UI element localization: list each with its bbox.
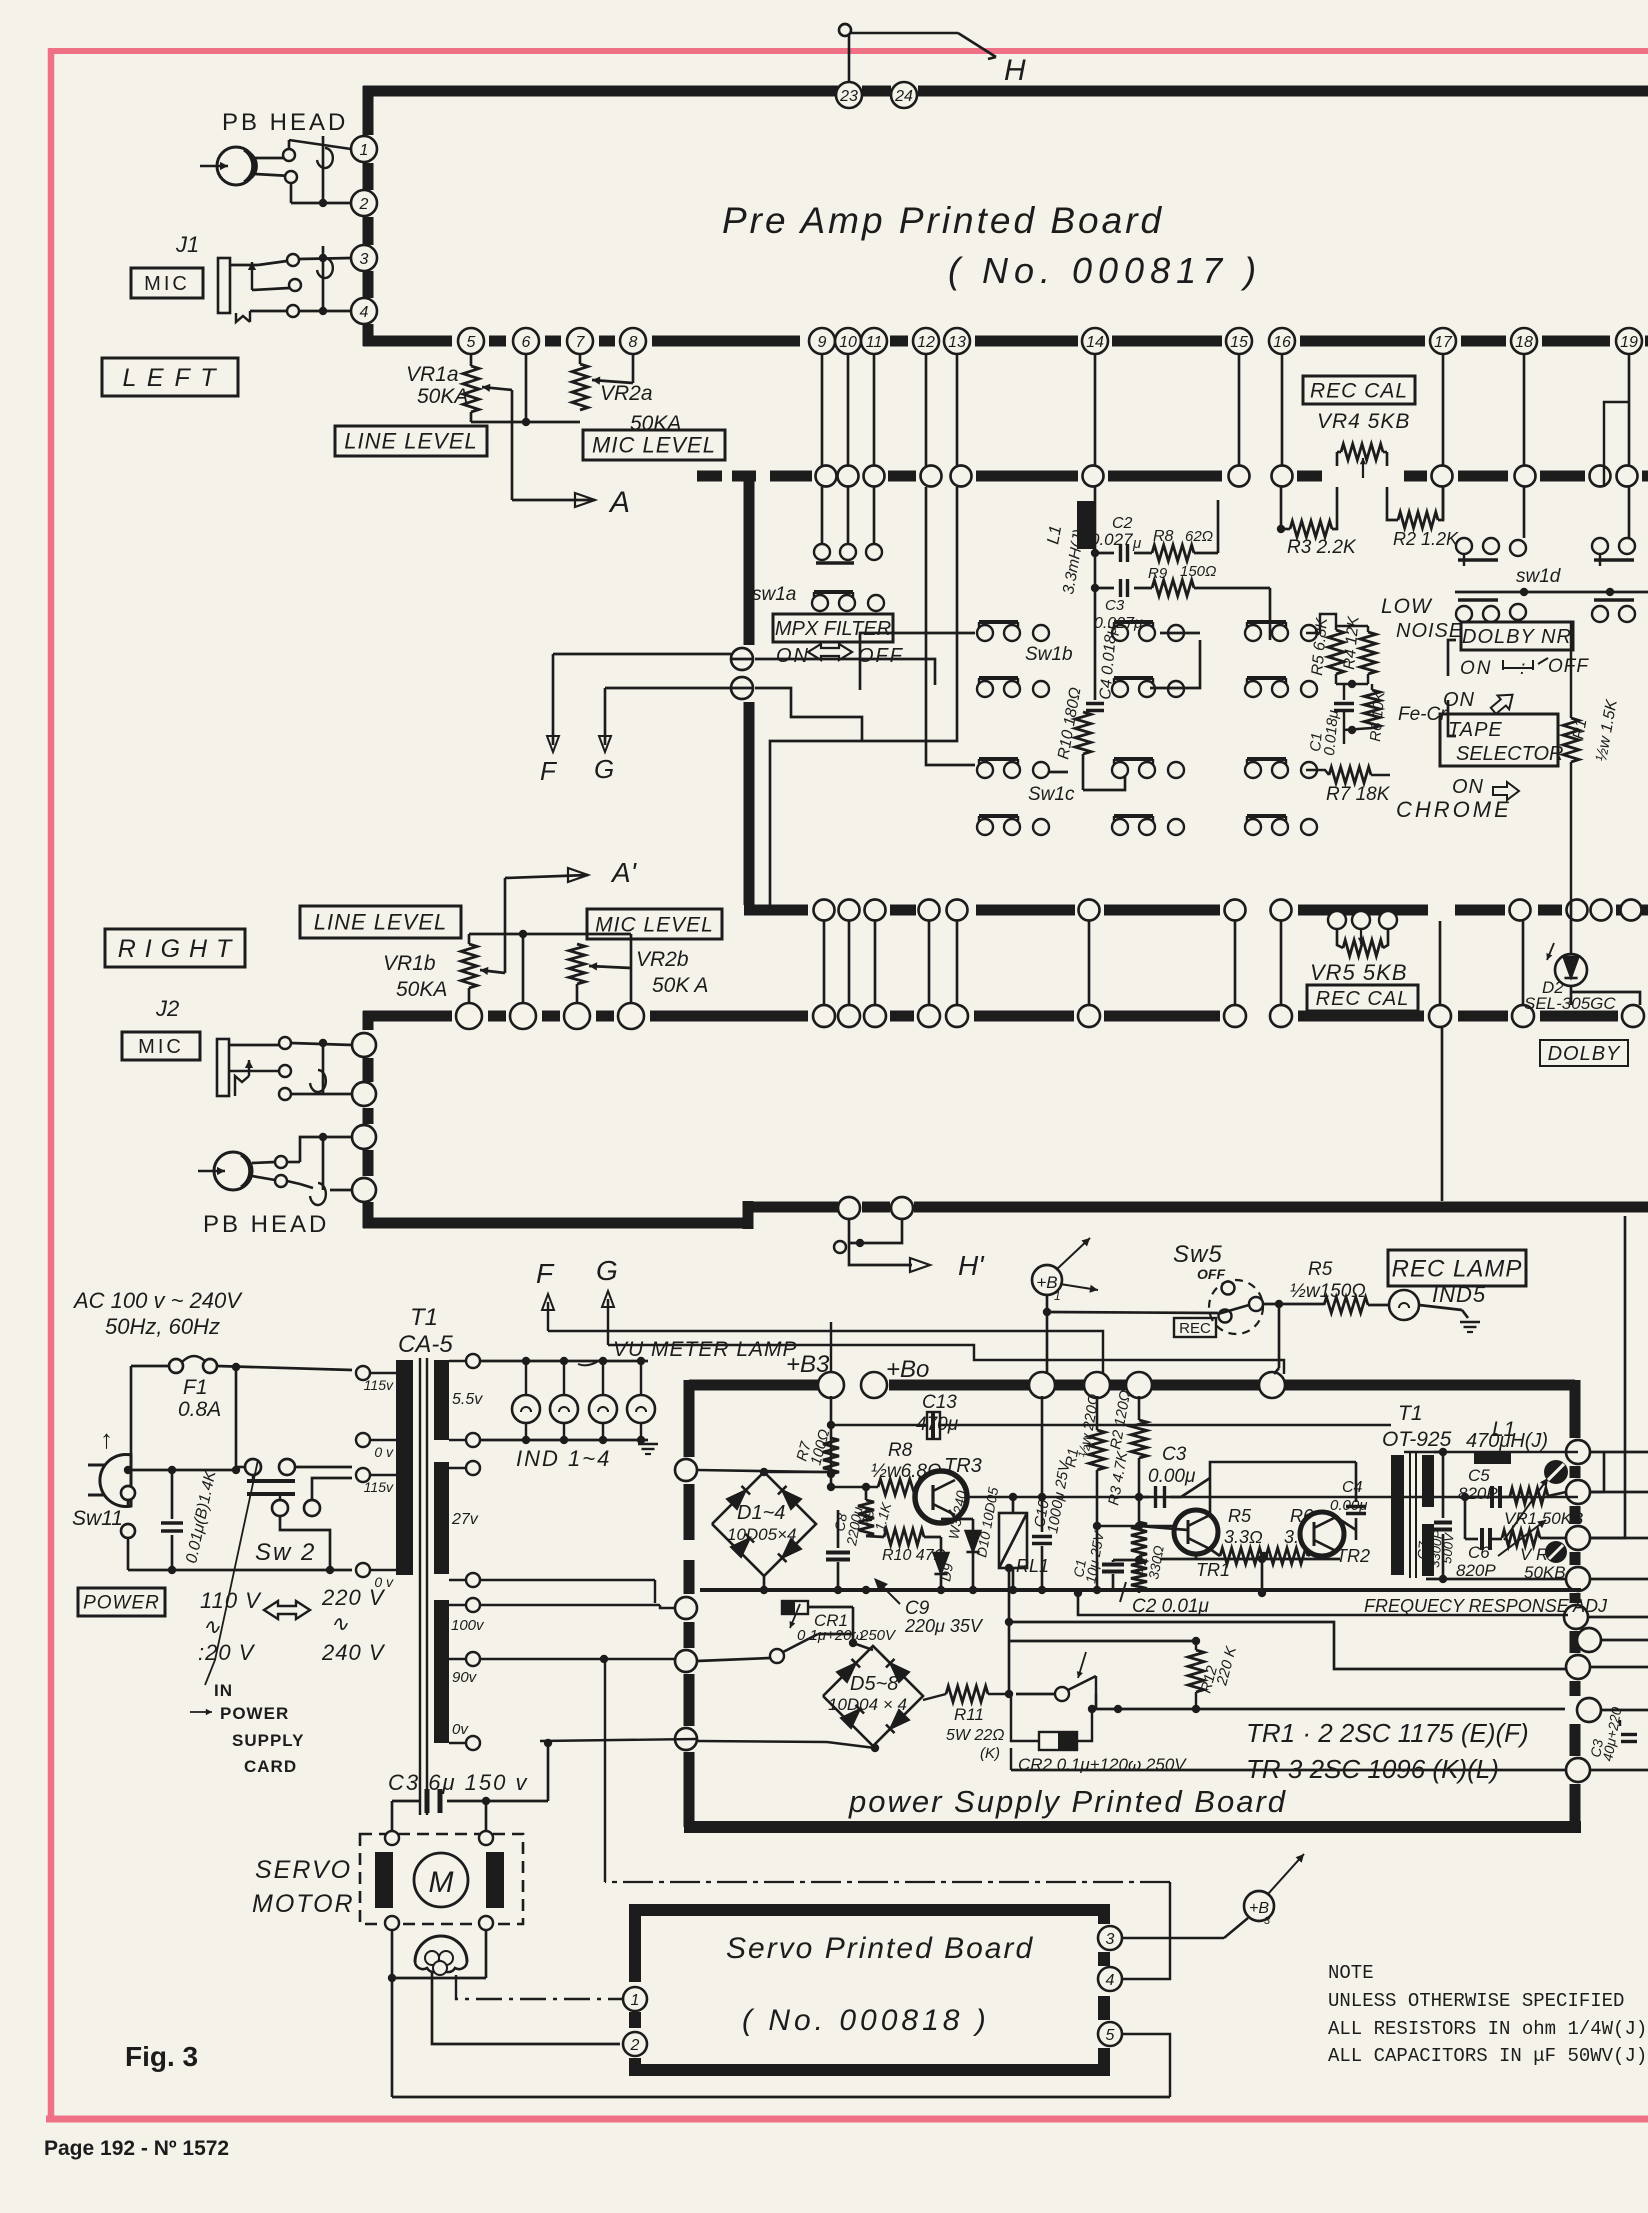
svg-text:NOTE: NOTE <box>1328 1962 1374 1984</box>
wire R12 top <box>1009 1640 1196 1643</box>
LEFT label <box>102 358 238 396</box>
MPX FILTER label <box>773 614 893 642</box>
svg-text:11: 11 <box>866 334 883 351</box>
terminal <box>1510 900 1531 921</box>
node 15 <box>1226 328 1252 354</box>
wire switch board left edge <box>744 471 755 645</box>
+B3 servo node <box>1244 1891 1274 1921</box>
svg-text:115v: 115v <box>364 1479 394 1495</box>
potentiometer VR5 5KB <box>1328 911 1346 929</box>
terminal <box>947 900 968 921</box>
svg-text:OFF: OFF <box>1197 1266 1225 1282</box>
terminal <box>951 466 972 487</box>
resistor R2 1.2k <box>1387 487 1398 520</box>
servo terminals 3 4 5 <box>1098 1926 1122 1950</box>
svg-text:10D04 × 4: 10D04 × 4 <box>828 1695 907 1714</box>
svg-text:T1: T1 <box>410 1304 438 1331</box>
svg-text:( No. 000817 ): ( No. 000817 ) <box>948 250 1262 291</box>
MIC LEVEL label right <box>587 909 722 939</box>
switch contact <box>977 625 993 641</box>
wire node10 down <box>847 355 850 466</box>
svg-text:C4: C4 <box>1342 1479 1363 1496</box>
svg-text:62Ω: 62Ω <box>1185 528 1213 545</box>
svg-text:VR1a: VR1a <box>406 363 459 386</box>
svg-text:18: 18 <box>1515 334 1533 351</box>
svg-text:TR2: TR2 <box>1336 1546 1370 1566</box>
wire node17 down <box>1442 355 1445 466</box>
terminal <box>1083 466 1104 487</box>
terminal <box>813 1005 835 1027</box>
node 2 <box>351 190 377 216</box>
svg-text:15: 15 <box>1230 334 1248 351</box>
svg-text:J1: J1 <box>175 232 199 257</box>
svg-text:90v: 90v <box>452 1669 478 1686</box>
svg-text:MPX FILTER: MPX FILTER <box>775 618 891 640</box>
transistor TR1 <box>1174 1510 1218 1554</box>
wire power board top edge <box>689 1380 820 1391</box>
wire R11 up and right <box>1008 1568 1011 1693</box>
svg-text:VR2a: VR2a <box>600 382 653 405</box>
switch CR1 arm <box>697 1658 770 1661</box>
pot VR1 50KB <box>1510 1488 1548 1504</box>
AC plug <box>100 1454 131 1506</box>
wire tr3 collector <box>967 1496 1578 1499</box>
svg-text:50Hz, 60Hz: 50Hz, 60Hz <box>105 1314 220 1339</box>
wire junction <box>522 934 525 1003</box>
motor terminals <box>385 1831 399 1845</box>
svg-text:power Supply Printed Board: power Supply Printed Board <box>848 1784 1287 1819</box>
svg-text:REC LAMP: REC LAMP <box>1392 1255 1523 1282</box>
REC CAL label right <box>1307 985 1418 1011</box>
wire pb head contacts <box>255 157 289 160</box>
servo motor box <box>360 1834 523 1924</box>
svg-text:FREQUECY RESPONSE ADJ: FREQUECY RESPONSE ADJ <box>1364 1596 1608 1616</box>
svg-text:PB HEAD: PB HEAD <box>222 109 348 136</box>
wire node13 route <box>770 487 957 905</box>
PB head right <box>214 1152 252 1190</box>
terminal <box>864 466 885 487</box>
wire ladder <box>874 921 877 1005</box>
wire 0v rail <box>128 1569 352 1572</box>
svg-text:Servo Printed Board: Servo Printed Board <box>726 1932 1034 1965</box>
svg-text:DOLBY: DOLBY <box>1548 1043 1621 1065</box>
wire node6 down <box>525 355 528 422</box>
servo terminals 1 2 <box>623 1987 647 2011</box>
terminal <box>564 1003 590 1029</box>
wire sw2 connections <box>235 1367 238 1467</box>
terminal <box>456 1003 482 1029</box>
node 8 <box>620 328 646 354</box>
node 3 <box>351 245 377 271</box>
terminal <box>1617 466 1638 487</box>
wire TR1 collector top <box>1210 1462 1356 1515</box>
svg-text:ON: ON <box>1452 776 1484 798</box>
svg-text:OFF: OFF <box>1548 656 1589 677</box>
svg-text:TR 3 2SC 1096 (K)(L): TR 3 2SC 1096 (K)(L) <box>1246 1754 1499 1784</box>
LINE LEVEL label right <box>300 906 461 938</box>
wire node7 down <box>579 355 582 364</box>
terminal <box>1229 466 1250 487</box>
svg-text:D5~8: D5~8 <box>850 1673 898 1695</box>
svg-text:5: 5 <box>1106 2027 1115 2044</box>
svg-text:C3 6μ 150 v: C3 6μ 150 v <box>388 1770 528 1795</box>
servo board outline <box>629 1904 1110 1916</box>
svg-text:150Ω: 150Ω <box>1180 563 1216 580</box>
wire pre-amp board top edge <box>363 86 838 97</box>
wire bottom rail osc <box>1426 1578 1566 1581</box>
svg-text:115v: 115v <box>364 1377 394 1393</box>
svg-text:SERVO: SERVO <box>255 1856 352 1884</box>
wire c3 sides down <box>391 1801 394 1838</box>
svg-text:OFF: OFF <box>858 645 904 667</box>
TAPE SELECTOR label <box>1440 714 1558 766</box>
svg-text:ON: ON <box>1460 658 1493 679</box>
wire pre-amp board left edge <box>363 96 374 135</box>
terminal <box>1224 1005 1246 1027</box>
svg-text:Sw5: Sw5 <box>1173 1241 1223 1268</box>
svg-text:OT-925: OT-925 <box>1382 1428 1452 1451</box>
VR2 knob <box>1545 1541 1567 1563</box>
wire governor to terminals <box>456 1975 629 1999</box>
switch contact <box>1245 762 1261 778</box>
svg-text:5: 5 <box>467 334 476 351</box>
svg-text:PB HEAD: PB HEAD <box>203 1211 329 1238</box>
capacitor C9 annotation <box>876 1580 900 1604</box>
wire node12 route <box>926 487 975 765</box>
wire power board bottom edge <box>684 1821 1581 1833</box>
terminals power board top <box>818 1372 844 1398</box>
svg-text:12: 12 <box>917 334 935 351</box>
wire G to power board <box>608 1345 1284 1374</box>
resistor R7 18k <box>1306 770 1329 775</box>
bridge D1-4 <box>712 1472 816 1576</box>
switch contact <box>1245 681 1261 697</box>
svg-text:+B3: +B3 <box>786 1351 830 1378</box>
svg-text:10D05×4: 10D05×4 <box>727 1525 796 1544</box>
terminal <box>946 1005 968 1027</box>
inductor L1 3.3mH <box>1077 501 1094 549</box>
terminal <box>838 1005 860 1027</box>
wire A' arrow <box>504 878 507 973</box>
svg-text:0.8A: 0.8A <box>178 1398 221 1421</box>
svg-text:REC CAL: REC CAL <box>1316 988 1410 1010</box>
wire node5 to VR1a <box>470 355 473 366</box>
svg-text:MIC LEVEL: MIC LEVEL <box>592 433 716 458</box>
terminal <box>1591 900 1612 921</box>
svg-text:C3: C3 <box>1162 1444 1187 1465</box>
svg-text:C6: C6 <box>1468 1543 1490 1562</box>
svg-text:ON: ON <box>776 645 810 667</box>
terminal PBr1 <box>352 1125 376 1149</box>
svg-text:sw1a: sw1a <box>752 584 796 605</box>
svg-text:R11: R11 <box>954 1705 984 1724</box>
svg-text:27v: 27v <box>451 1511 479 1528</box>
svg-text:VR4 5KB: VR4 5KB <box>1317 410 1410 433</box>
transistor TR2 <box>1300 1512 1344 1556</box>
terminal <box>816 466 837 487</box>
svg-text:3: 3 <box>360 251 369 268</box>
svg-text:RL1: RL1 <box>1016 1556 1049 1576</box>
switch contact <box>1112 762 1128 778</box>
node 23 <box>836 82 862 108</box>
motor M <box>414 1853 468 1907</box>
terminal <box>1512 1005 1534 1027</box>
switch contact <box>977 762 993 778</box>
svg-text:LOW: LOW <box>1381 595 1433 618</box>
switch contact <box>977 681 993 697</box>
svg-text:POWER: POWER <box>83 1593 160 1614</box>
svg-text:3: 3 <box>1264 1915 1271 1927</box>
svg-text:5.5v: 5.5v <box>452 1391 483 1408</box>
svg-text:+Bo: +Bo <box>886 1356 929 1383</box>
svg-text:A: A <box>608 486 630 519</box>
wire node14 down <box>1094 355 1097 466</box>
wire mid row <box>1096 1708 1565 1711</box>
wire 100v tap to CR1 <box>480 1604 660 1606</box>
terminal F <box>731 648 753 670</box>
node 1 <box>351 136 377 162</box>
terminal <box>1621 900 1642 921</box>
node A wire <box>511 390 514 500</box>
svg-text:ALL RESISTORS IN ohm 1/4W(J): ALL RESISTORS IN ohm 1/4W(J) <box>1328 2018 1647 2040</box>
terminals power board left <box>675 1459 697 1481</box>
node 7 <box>567 328 593 354</box>
svg-text:∿: ∿ <box>330 1611 349 1636</box>
primary taps <box>356 1366 370 1380</box>
svg-text::20 V: :20 V <box>198 1640 256 1665</box>
svg-text:↑: ↑ <box>100 1424 113 1454</box>
terminal <box>838 466 859 487</box>
MIC LEVEL label <box>583 430 725 460</box>
svg-text:Sw1b: Sw1b <box>1025 644 1073 665</box>
svg-text:G: G <box>594 754 614 784</box>
svg-text:8: 8 <box>629 334 638 351</box>
terminal <box>1271 900 1292 921</box>
REC box <box>1174 1318 1216 1337</box>
svg-text:6: 6 <box>522 334 531 351</box>
diode D10 10D05 <box>965 1531 980 1552</box>
wire sw1d to R1 <box>1570 622 1572 718</box>
wire bridge top <box>764 1471 831 1474</box>
svg-text:50KA: 50KA <box>630 412 681 435</box>
wire node8 to VR2a wiper <box>632 355 635 383</box>
svg-text:ALL CAPACITORS IN μF 50WV(J): ALL CAPACITORS IN μF 50WV(J) <box>1328 2045 1647 2067</box>
lamp IND3 <box>602 1361 604 1395</box>
switch lower <box>1055 1687 1069 1701</box>
wire R1R2 to base line <box>1093 1522 1101 1530</box>
svg-text:TR1: TR1 <box>1196 1560 1230 1580</box>
wire sec top <box>1434 1451 1443 1454</box>
wire right board left edge <box>363 1011 374 1030</box>
svg-text:MIC: MIC <box>144 273 190 295</box>
node 24 <box>891 82 917 108</box>
terminals power board right <box>1566 1440 1590 1464</box>
wire servo 3 to +B <box>1122 1937 1224 1939</box>
svg-text:L1: L1 <box>1043 524 1065 546</box>
node 12 <box>913 328 939 354</box>
terminal <box>1622 1005 1644 1027</box>
secondary taps <box>466 1354 480 1368</box>
POWER label <box>78 1588 165 1616</box>
svg-text:220μ 35V: 220μ 35V <box>904 1616 984 1636</box>
svg-text:19: 19 <box>1620 334 1638 351</box>
svg-text:470μH(J): 470μH(J) <box>1466 1430 1548 1452</box>
node 14 <box>1082 328 1108 354</box>
wire bottom long <box>392 2096 1170 2099</box>
wire left terminal row <box>697 1470 826 1472</box>
relay RL1 <box>999 1513 1027 1568</box>
wire J1 contacts <box>287 254 299 266</box>
switch contact <box>1112 625 1128 641</box>
svg-text::: : <box>1520 658 1525 679</box>
terminal <box>919 900 940 921</box>
wire lamp rail top <box>480 1360 648 1363</box>
svg-text:C5: C5 <box>1468 1466 1490 1485</box>
LINE LEVEL label <box>335 426 487 456</box>
svg-text:2: 2 <box>359 196 369 213</box>
node 9 <box>809 328 835 354</box>
svg-text:17: 17 <box>1434 334 1453 351</box>
node 18 <box>1511 328 1537 354</box>
svg-text:820P: 820P <box>1456 1561 1496 1580</box>
wire C5 junction <box>1464 1497 1467 1539</box>
wire H link <box>848 33 851 82</box>
wire right verticals <box>1603 1452 1606 1492</box>
svg-text:14: 14 <box>1086 334 1104 351</box>
wire switch board bottom edge <box>744 905 808 916</box>
svg-text:VR5 5KB: VR5 5KB <box>1310 960 1408 985</box>
wire ladder <box>1234 921 1237 1005</box>
wire F <box>731 658 753 661</box>
svg-text:CHROME: CHROME <box>1396 797 1512 822</box>
DOLBY label <box>1540 1040 1628 1066</box>
svg-text:1: 1 <box>360 142 369 159</box>
governor <box>415 1936 467 1962</box>
svg-text:Page 192 - Nº 1572: Page 192 - Nº 1572 <box>44 2137 229 2160</box>
terminal <box>1225 900 1246 921</box>
wire lamp rail bottom <box>480 1439 648 1442</box>
svg-text:Sw 2: Sw 2 <box>255 1539 316 1566</box>
svg-text:CARD: CARD <box>244 1757 297 1776</box>
wire TR1 base <box>1139 1526 1188 1530</box>
selector bracket <box>1448 640 1456 676</box>
wire freq adj <box>1078 1593 1568 1615</box>
switch contact <box>1245 819 1261 835</box>
svg-text:Fig. 3: Fig. 3 <box>125 2041 198 2072</box>
terminal h1 <box>838 1197 860 1219</box>
terminal J2b <box>352 1082 376 1106</box>
capacitor CR1 <box>782 1601 808 1614</box>
node 5 <box>458 328 484 354</box>
svg-text:50K A: 50K A <box>652 974 708 997</box>
svg-text:R8: R8 <box>888 1440 913 1461</box>
node 11 <box>861 328 887 354</box>
wire right board bottom edge <box>363 1218 748 1229</box>
svg-text:G: G <box>596 1255 618 1286</box>
svg-text:T1: T1 <box>1398 1402 1423 1425</box>
terminal <box>839 900 860 921</box>
wire F to power board <box>548 1331 1103 1374</box>
wire motor bottom <box>391 1930 394 1978</box>
svg-text:R5: R5 <box>1308 1259 1333 1280</box>
wire node12 down <box>925 355 928 466</box>
wire H' link <box>848 1219 851 1243</box>
svg-text:4: 4 <box>1106 1972 1115 1989</box>
svg-text:Sw1c: Sw1c <box>1028 784 1075 805</box>
svg-text:1: 1 <box>631 1992 640 2009</box>
terminal <box>921 466 942 487</box>
svg-text:IN: IN <box>214 1681 233 1700</box>
wire VR1a bottom <box>470 412 473 422</box>
wire node15 down <box>1238 355 1241 466</box>
wire contact stubs sw1a <box>821 487 824 545</box>
svg-text:Sw11: Sw11 <box>72 1507 123 1530</box>
wire right channel bus <box>363 1011 452 1022</box>
RIGHT label <box>105 929 245 967</box>
svg-text:∿: ∿ <box>202 1614 221 1639</box>
svg-text:IND5: IND5 <box>1432 1282 1486 1307</box>
wire 0v rail power board <box>700 1588 1581 1592</box>
svg-text:( No. 000818 ): ( No. 000818 ) <box>742 2004 990 2037</box>
resistor R11 5w22ohm <box>923 1694 946 1700</box>
svg-text:F: F <box>540 756 558 786</box>
svg-text:VR2b: VR2b <box>636 948 689 971</box>
svg-text:H': H' <box>958 1250 985 1281</box>
wire sw to R5 <box>1306 614 1336 633</box>
svg-text:LINE LEVEL: LINE LEVEL <box>314 910 448 935</box>
svg-text:J2: J2 <box>155 996 179 1021</box>
node 13 <box>944 328 970 354</box>
wire sw1c links <box>1048 771 1068 774</box>
terminal <box>814 900 835 921</box>
wire node13 down <box>956 355 959 466</box>
svg-text:7: 7 <box>576 334 586 351</box>
svg-text:D9: D9 <box>937 1562 956 1583</box>
capacitor CR2 <box>1039 1732 1077 1750</box>
wire node19 down <box>1628 355 1631 466</box>
pink border top <box>51 48 1648 54</box>
wire ladder <box>1088 921 1091 1005</box>
svg-text:VR1 50KB: VR1 50KB <box>1504 1509 1583 1528</box>
svg-text:μ: μ <box>1132 535 1141 552</box>
svg-text:50KA: 50KA <box>396 978 447 1001</box>
svg-text:UNLESS OTHERWISE SPECIFIED: UNLESS OTHERWISE SPECIFIED <box>1328 1990 1624 2012</box>
wire ladder <box>848 921 851 1005</box>
wire G <box>731 687 753 690</box>
svg-text:R3 2.2K: R3 2.2K <box>1287 537 1357 558</box>
wire bottom row <box>1010 1748 1012 1770</box>
svg-text:4: 4 <box>360 304 369 321</box>
svg-text:F: F <box>536 1258 555 1289</box>
terminal G <box>731 677 753 699</box>
node 4 <box>351 298 377 324</box>
wire CR1 to bridge <box>808 1606 853 1609</box>
svg-text:9: 9 <box>818 334 827 351</box>
svg-text:0v: 0v <box>452 1721 469 1738</box>
diode D9 <box>933 1553 948 1574</box>
svg-text:3: 3 <box>1106 1931 1115 1948</box>
svg-text:sw1d: sw1d <box>1516 566 1562 587</box>
svg-text:1: 1 <box>1054 1289 1061 1303</box>
svg-text:DOLBY NR: DOLBY NR <box>1462 626 1572 648</box>
node 19 <box>1616 328 1642 354</box>
pink border bottom <box>46 2116 1648 2123</box>
terminal <box>865 900 886 921</box>
+B1 node <box>1032 1265 1062 1295</box>
lamp IND4 <box>640 1361 642 1395</box>
lamp IND5 <box>1389 1290 1419 1320</box>
ground lamp rail <box>638 1443 658 1446</box>
